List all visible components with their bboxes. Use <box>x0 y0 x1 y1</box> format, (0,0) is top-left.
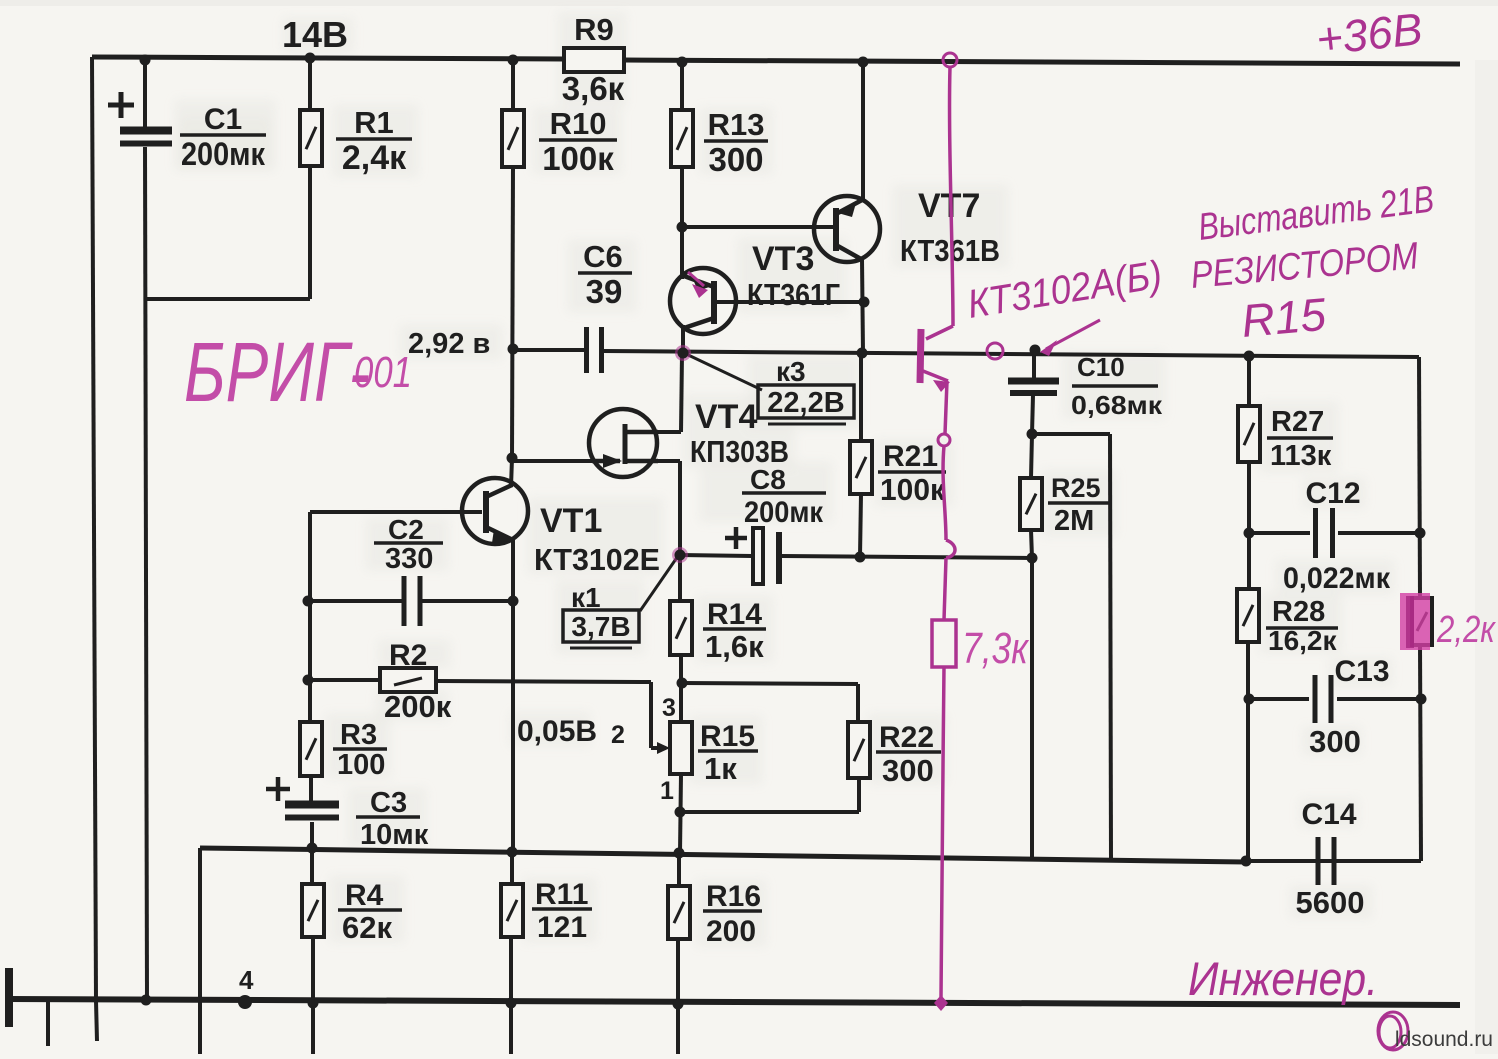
wire C8 node down to R14 <box>678 556 682 601</box>
wire VT7 collector down to rail <box>862 259 863 353</box>
svg-text:R1: R1 <box>354 105 394 140</box>
wire R10 bottom lead down to VT1 collector node <box>512 167 513 458</box>
capacitor C10 0.68mk <box>1008 381 1059 393</box>
wire R15 wiper <box>651 746 666 750</box>
svg-text:R15: R15 <box>700 720 755 753</box>
wire R2 right to R15 wiper <box>436 681 651 682</box>
wire C3 to R4 with mid-rail node <box>310 822 314 884</box>
wire mid rail <box>200 848 1246 862</box>
annotation arrow at VT3 (magenta) <box>688 272 704 286</box>
wire R22 top lead <box>856 684 860 722</box>
wire VT7 base <box>682 225 834 229</box>
wire R25 top lead <box>1031 434 1032 478</box>
wire magenta resistor to ground rail <box>941 667 944 997</box>
wire top rail right of R9 <box>624 60 1460 64</box>
svg-text:КТ361Г: КТ361Г <box>747 277 840 312</box>
wire R22 bottom lead <box>857 778 861 812</box>
svg-text:22,2В: 22,2В <box>767 387 844 419</box>
svg-text:300: 300 <box>1309 724 1361 759</box>
node C1 top rail <box>140 55 151 66</box>
label C1 200mk <box>180 103 266 172</box>
wire VT1 collector stub <box>511 458 512 487</box>
node R2 left <box>303 675 314 686</box>
wire VT4 source down to C8 node <box>678 461 682 556</box>
resistor R3 100 <box>300 722 322 776</box>
svg-text:200мк: 200мк <box>744 496 824 529</box>
node C2 left <box>303 596 314 607</box>
svg-text:7,3к: 7,3к <box>962 624 1030 673</box>
label R13 300 <box>704 107 768 178</box>
svg-text:VT4: VT4 <box>695 398 757 436</box>
node k3 22.2V callout <box>684 353 762 390</box>
svg-text:3,6к: 3,6к <box>562 70 625 107</box>
svg-text:3: 3 <box>662 694 676 722</box>
wire ground stub 2 <box>96 1001 97 1041</box>
wire R1 to C1 column <box>145 297 310 301</box>
wire R2 left <box>308 678 380 682</box>
svg-text:R11: R11 <box>535 878 588 911</box>
node 0 output mark (magenta) <box>1378 1012 1408 1050</box>
svg-text:ldsound.ru: ldsound.ru <box>1395 1028 1493 1051</box>
svg-text:2,4к: 2,4к <box>342 139 407 177</box>
svg-text:300: 300 <box>708 141 763 178</box>
capacitor C6 39 <box>587 327 602 373</box>
wire C2 right to VT1 emitter <box>420 599 513 603</box>
node 2.92V rail R10 <box>508 344 519 355</box>
capacitor C1 plus sign <box>108 92 134 118</box>
svg-text:R15: R15 <box>1239 288 1328 347</box>
node VT1 emitter mid rail <box>507 847 518 858</box>
wire C1 top lead <box>143 59 147 128</box>
node R21 bottom <box>855 552 866 563</box>
svg-text:113к: 113к <box>1270 440 1332 472</box>
node C8 left <box>675 550 686 561</box>
svg-text:0,05В: 0,05В <box>517 715 597 748</box>
svg-text:R13: R13 <box>708 107 765 142</box>
svg-text:16,2к: 16,2к <box>1268 625 1337 656</box>
node C3 mid rail <box>307 843 318 854</box>
resistor R14 1.6k <box>670 601 692 655</box>
wire VT1 emitter down to mid rail <box>511 538 515 853</box>
wire R3 to C3 <box>309 776 313 801</box>
svg-text:C8: C8 <box>750 464 786 495</box>
svg-text:С13: С13 <box>1334 655 1389 688</box>
node magenta tinge at k3 node <box>675 345 691 361</box>
svg-text:3,7В: 3,7В <box>571 611 630 642</box>
wire VT4 drain up to rail node <box>681 354 682 432</box>
wire left vertical column <box>92 57 96 1001</box>
resistor R9 3.6k <box>564 48 624 72</box>
wire C12 right lead <box>1338 531 1420 535</box>
node magenta circle on rail <box>987 343 1003 359</box>
wire left bias column upper <box>308 512 312 722</box>
capacitor C12 0.022mk <box>1316 508 1333 558</box>
node R13 top rail <box>677 57 688 68</box>
node magenta at ground rail <box>934 995 948 1011</box>
ground rail left terminal bar <box>5 968 13 1027</box>
R15 wiper arrowhead <box>657 742 670 754</box>
capacitor C1 200mk <box>120 131 172 144</box>
svg-text:200к: 200к <box>384 689 452 724</box>
svg-text:С14: С14 <box>1301 798 1356 831</box>
wire VT1 base <box>310 510 482 514</box>
node C14 left mid rail <box>1241 856 1252 867</box>
wire C10 node to right drop <box>1032 432 1110 436</box>
wire R25 node down to mid rail <box>1030 558 1034 861</box>
svg-text:С2: С2 <box>388 514 424 545</box>
resistor R21 100k <box>850 441 872 494</box>
svg-text:1: 1 <box>660 777 674 805</box>
svg-text:к3: к3 <box>776 356 806 387</box>
svg-text:R2: R2 <box>389 639 427 672</box>
node R11 ground <box>506 998 517 1009</box>
node VT3 base to VT7 collector <box>859 297 870 308</box>
svg-text:C6: C6 <box>583 239 623 274</box>
resistor R4 62k <box>302 884 324 937</box>
wire R1 top lead <box>308 58 312 110</box>
capacitor C3 plus sign <box>266 777 290 801</box>
resistor R28 16.2k <box>1237 589 1259 642</box>
transistor VT7 KT361V <box>814 196 880 262</box>
wire R15 bottom to mid rail <box>680 774 681 853</box>
node 4 on ground rail <box>238 995 252 1009</box>
node R16 ground <box>673 999 684 1010</box>
wire R25 bottom lead <box>1031 530 1032 558</box>
svg-text:001: 001 <box>354 348 412 397</box>
svg-text:R28: R28 <box>1272 596 1325 628</box>
wire R13 bottom lead to VT3 emitter <box>680 167 684 279</box>
wire bottom ground rail <box>8 999 1460 1005</box>
label R10 100k <box>539 106 617 177</box>
svg-text:0,68мк: 0,68мк <box>1071 390 1163 420</box>
resistor R22 300 <box>848 722 870 778</box>
node VT1 collector VT4 gate <box>507 453 518 464</box>
node C1 ground <box>141 995 152 1006</box>
wire C2 left <box>308 599 402 603</box>
wire R27 top lead <box>1247 355 1251 406</box>
svg-text:С10: С10 <box>1077 352 1125 382</box>
resistor R10 100k <box>502 110 524 167</box>
svg-text:КТ3102Е: КТ3102Е <box>534 542 660 577</box>
svg-text:14В: 14В <box>282 14 348 55</box>
svg-text:100к: 100к <box>542 140 614 177</box>
svg-text:R22: R22 <box>879 721 934 754</box>
wire R15 node to R22 top <box>682 683 858 684</box>
node C13 left <box>1244 694 1255 705</box>
wire right drop to mid rail <box>1110 434 1111 861</box>
svg-text:1к: 1к <box>704 751 737 786</box>
wire R11 top lead <box>510 852 514 884</box>
resistor R1 2.4k <box>300 110 322 166</box>
capacitor C2 330 <box>404 576 420 626</box>
node k1 3.7V callout <box>640 556 678 611</box>
node R25 bottom <box>1027 553 1038 564</box>
svg-text:62к: 62к <box>342 910 392 945</box>
wire R11 bottom lead to ground rail <box>509 937 513 1054</box>
wire R10 top lead <box>511 60 515 110</box>
capacitor C8 200mk <box>725 527 779 584</box>
wire R15 wiper drop <box>649 682 653 748</box>
wire right column lower <box>1420 645 1421 861</box>
wire VT3 collector to 2.92V rail <box>681 325 685 353</box>
wire R1 bottom lead <box>308 165 312 299</box>
wire C14 right lead <box>1340 859 1421 863</box>
wire VT7 emitter to top rail <box>861 62 865 199</box>
svg-text:2: 2 <box>611 721 625 749</box>
label R1 2.4k <box>336 105 412 177</box>
svg-text:C1: C1 <box>204 103 242 136</box>
node R27 top <box>1244 351 1255 362</box>
node R10 top rail <box>508 55 519 66</box>
resistor R2 200k <box>380 668 436 692</box>
transistor VT4 KP303V JFET <box>589 409 658 477</box>
svg-text:R14: R14 <box>707 598 762 631</box>
wire 2.92V rail to C6 <box>513 348 585 352</box>
svg-text:10мк: 10мк <box>360 819 429 851</box>
wire R27 bottom to R28 top <box>1247 462 1251 589</box>
resistor R13 300 <box>671 110 693 167</box>
node C10 top <box>1030 345 1041 356</box>
svg-text:39: 39 <box>586 273 623 310</box>
svg-text:2М: 2М <box>1054 505 1094 537</box>
label scan halos decorative <box>175 12 1394 946</box>
wire R22 bottom to R15 bottom node <box>680 810 859 814</box>
wire R13 top lead <box>680 62 684 110</box>
wire VT4 source <box>626 459 680 463</box>
resistor R16 200 <box>668 886 690 939</box>
node C10 bottom R25 top <box>1027 429 1038 440</box>
transistor VT3 KT361G <box>670 268 736 334</box>
svg-text:R27: R27 <box>1271 406 1324 438</box>
node C2 right emitter <box>508 596 519 607</box>
resistor 2.2k (right column) <box>1412 598 1432 645</box>
node R15 bottom R22 <box>675 807 686 818</box>
svg-text:0,022мк: 0,022мк <box>1283 562 1391 595</box>
resistor 7.3k hand-drawn (magenta) <box>932 620 956 667</box>
wire C13 right lead <box>1337 697 1421 701</box>
wire C10 bottom lead <box>1032 395 1033 434</box>
wire R16 top lead <box>677 853 681 886</box>
svg-text:100: 100 <box>337 749 385 781</box>
resistor R27 113k <box>1238 406 1260 462</box>
wire C8 left lead <box>680 555 752 556</box>
node VT7 base junction <box>677 222 688 233</box>
svg-text:4: 4 <box>239 965 254 995</box>
node 2.92V rail R13/VT4 <box>678 348 689 359</box>
wire R28 bottom to C14 node <box>1246 642 1250 861</box>
wire C12 left lead <box>1249 531 1310 535</box>
wire right column upper <box>1419 357 1420 598</box>
svg-text:R25: R25 <box>1051 473 1101 503</box>
transistor KT3102A(B) hand-drawn (magenta) <box>920 53 957 620</box>
wire VT4 drain <box>626 430 681 434</box>
wire R16 bottom lead to ground rail <box>676 939 680 1054</box>
svg-text:БРИГ-: БРИГ- <box>184 325 370 419</box>
wire R4 bottom to ground rail and below <box>311 937 315 1054</box>
wire VT3 base to VT7 collector column <box>715 300 864 304</box>
wire VT4 gate from VT1 collector node <box>512 459 614 463</box>
svg-text:C3: C3 <box>370 787 407 819</box>
node VT7 emitter rail <box>858 57 869 68</box>
svg-text:100к: 100к <box>880 472 945 507</box>
wire C10 top lead <box>1032 350 1036 379</box>
node C13 right <box>1416 694 1427 705</box>
node R14 R15 junction <box>677 678 688 689</box>
wire right column to C14 node <box>1246 859 1421 863</box>
wire C1 bottom lead down to ground rail <box>145 147 147 1000</box>
svg-text:VT3: VT3 <box>752 240 814 278</box>
wire C14 left lead <box>1246 859 1312 863</box>
wire top 14V/36V rail left of R9 <box>92 57 564 59</box>
capacitor C13 300 <box>1315 675 1331 723</box>
resistor R15 1k potentiometer <box>670 722 692 774</box>
svg-text:VT1: VT1 <box>540 502 602 540</box>
resistor R25 2M <box>1020 478 1042 530</box>
svg-text:R21: R21 <box>883 440 938 473</box>
wire 2.92V rail from C6 to right column <box>603 351 1419 357</box>
node R1 top rail <box>305 53 316 64</box>
svg-text:2,2к: 2,2к <box>1436 609 1496 651</box>
wire C8 right lead to R25 bottom node <box>782 556 1032 558</box>
node R4 ground <box>308 998 319 1009</box>
capacitor C3 10mk <box>285 805 339 818</box>
capacitor C14 5600 <box>1318 837 1334 885</box>
svg-text:200мк: 200мк <box>181 136 266 172</box>
node C12 right <box>1415 528 1426 539</box>
node C12 left <box>1244 528 1255 539</box>
svg-text:R3: R3 <box>340 719 377 751</box>
node VT7 collector rail <box>857 348 868 359</box>
svg-text:Инженер.: Инженер. <box>1188 952 1378 1005</box>
transistor VT1 KT3102E <box>462 478 528 544</box>
svg-text:R16: R16 <box>706 880 761 913</box>
annotation set 21V with resistor R15 (magenta) <box>1189 178 1436 347</box>
wire R14 bottom to R15 top <box>679 655 683 722</box>
wire C13 left lead <box>1249 697 1309 701</box>
resistor R11 121 <box>501 884 523 937</box>
svg-text:R4: R4 <box>345 879 384 912</box>
svg-text:R9: R9 <box>574 12 614 47</box>
svg-text:5600: 5600 <box>1296 885 1365 920</box>
wire R21 bottom lead <box>860 494 861 557</box>
svg-text:300: 300 <box>882 753 934 788</box>
wire ground stub 1 <box>46 1001 50 1046</box>
svg-text:2,92 в: 2,92 в <box>408 328 490 360</box>
svg-text:R10: R10 <box>550 106 607 141</box>
svg-text:330: 330 <box>385 543 433 575</box>
node magenta tinge at C8 node <box>672 547 688 563</box>
svg-text:121: 121 <box>537 911 587 944</box>
wire mid rail left corner down <box>198 848 202 1054</box>
svg-text:200: 200 <box>706 915 756 948</box>
svg-text:С12: С12 <box>1305 477 1360 510</box>
svg-text:1,6к: 1,6к <box>705 629 764 664</box>
highlight 2.2k resistor (magenta marker) <box>1400 593 1430 650</box>
annotation BRIG-001 (magenta) <box>184 325 412 419</box>
node R16 top mid rail <box>674 848 685 859</box>
wire R21 top lead <box>859 353 863 441</box>
